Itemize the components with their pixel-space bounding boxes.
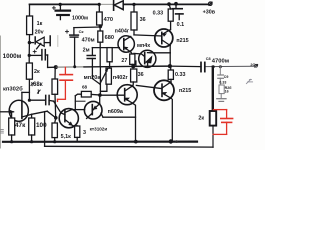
node xyxy=(54,116,58,120)
diode VD2 on rail xyxy=(113,1,115,10)
svg-text:16: 16 xyxy=(225,90,229,94)
small tick marks xyxy=(31,83,34,86)
svg-text:680: 680 xyxy=(105,35,114,41)
resistor R 2k xyxy=(26,63,32,79)
transistor VT p215 top xyxy=(155,29,173,47)
resistor R (1k) mid xyxy=(107,48,112,62)
svg-text:п404г: п404г xyxy=(115,28,130,34)
capacitor C 470u xyxy=(74,26,100,29)
left spine wire xyxy=(29,4,31,16)
value labels xyxy=(3,10,259,140)
input gate wire xyxy=(0,111,14,113)
svg-text:+30в: +30в xyxy=(203,10,216,16)
capacitor C8 4700u xyxy=(200,62,202,71)
svg-text:3: 3 xyxy=(83,130,86,136)
svg-text:47к: 47к xyxy=(15,122,26,129)
capacitor C (to base kt3102) xyxy=(29,99,45,101)
svg-text:Ск: Ск xyxy=(79,29,84,34)
ground arrow (faint, right) xyxy=(246,79,252,83)
svg-text:470: 470 xyxy=(104,17,113,23)
svg-text:0.1: 0.1 xyxy=(177,22,185,28)
resistor R 68 (horizontal) xyxy=(75,94,81,96)
svg-text:2к: 2к xyxy=(34,69,40,75)
svg-text:20v: 20v xyxy=(35,30,44,36)
wire p609a emitter row xyxy=(103,116,136,118)
red zobel on load xyxy=(213,110,232,135)
svg-text:С9: С9 xyxy=(224,75,229,79)
svg-text:С8: С8 xyxy=(206,57,211,61)
resistor R 3 xyxy=(75,126,80,137)
capacitor C 1000u (top filter) xyxy=(59,4,61,10)
node xyxy=(98,93,102,97)
svg-text:5,1к: 5,1к xyxy=(61,134,71,140)
wire (rail after diode) xyxy=(124,3,209,5)
resistor R 1k xyxy=(27,16,33,35)
node: rail junction dots xyxy=(59,3,62,6)
svg-text:кп302б: кп302б xyxy=(3,85,23,92)
svg-text:2м: 2м xyxy=(83,47,90,53)
zener diode VD1 xyxy=(29,42,33,44)
svg-text:2к: 2к xyxy=(198,116,204,122)
svg-text:36: 36 xyxy=(140,17,146,23)
svg-text:1к: 1к xyxy=(37,21,43,27)
input lower marks xyxy=(1,129,4,133)
resistor R 680 xyxy=(98,31,103,42)
capacitor C 2m xyxy=(91,48,93,56)
transistor VT p402g xyxy=(117,85,137,105)
node xyxy=(28,54,31,57)
resistor R 5.1k xyxy=(55,118,56,123)
bottom rail xyxy=(3,141,197,143)
JFET kp302b xyxy=(9,100,28,121)
speaker feed thick wire xyxy=(212,67,214,110)
base wire to VT p215 top xyxy=(134,35,162,36)
zobel C9 R2b (gray) xyxy=(217,67,226,102)
svg-text:4700м: 4700м xyxy=(212,58,229,64)
svg-text:68: 68 xyxy=(82,85,88,90)
resistor R 36 (top) xyxy=(133,4,135,12)
resistor R 47k xyxy=(11,112,13,118)
trimmer xyxy=(106,68,111,84)
capacitor C 0.1 xyxy=(175,4,177,9)
svg-text:1000м: 1000м xyxy=(72,15,88,21)
svg-text:п609а: п609а xyxy=(108,109,124,115)
svg-text:470м: 470м xyxy=(82,37,95,43)
resistor R 68k xyxy=(54,67,56,79)
svg-text:27: 27 xyxy=(121,58,127,64)
transistor VT p215 bottom xyxy=(154,80,174,100)
svg-text:68к: 68к xyxy=(33,82,43,88)
svg-text:1000м: 1000м xyxy=(3,53,22,60)
resistor R 27 xyxy=(130,54,135,64)
transistor VT p404g xyxy=(118,36,134,52)
transistor VT mp4x xyxy=(139,50,156,67)
node xyxy=(28,99,31,102)
resistor R 2k (load) xyxy=(210,111,217,126)
transistor VT kt3102 xyxy=(59,109,78,128)
svg-text:п215: п215 xyxy=(176,38,188,44)
svg-text:кт3102и: кт3102и xyxy=(90,127,108,132)
transistor VT p609a xyxy=(84,101,102,119)
red feedback cap (left) xyxy=(58,67,73,101)
svg-text:36: 36 xyxy=(138,72,144,78)
svg-text:п402г: п402г xyxy=(113,75,129,81)
svg-text:0.33: 0.33 xyxy=(153,10,164,16)
output terminal xyxy=(255,64,258,67)
resistor R 0.33 (mid) xyxy=(170,66,172,70)
output/feedback bus xyxy=(48,66,56,68)
node xyxy=(28,41,31,44)
resistor R 36 (mid) xyxy=(131,69,137,82)
wire (thin rail segment before diode) xyxy=(99,3,113,5)
+30v terminal xyxy=(209,2,212,5)
svg-text:2Ом: 2Ом xyxy=(250,63,258,67)
svg-text:100: 100 xyxy=(36,122,47,129)
resistor R 0.33 (top) xyxy=(168,9,173,21)
svg-text:мп4х: мп4х xyxy=(137,43,150,49)
svg-text:0,33: 0,33 xyxy=(219,80,226,84)
resistor R 100 xyxy=(31,114,33,118)
vertical x=100 down from 680 xyxy=(99,48,101,67)
resistor R 470 xyxy=(98,4,100,12)
capacitor C 1000u (coupling, left) xyxy=(29,54,41,56)
top supply rail xyxy=(30,3,100,5)
svg-text:0.33: 0.33 xyxy=(175,72,186,78)
svg-text:мп20а: мп20а xyxy=(84,75,102,81)
base bus y=47.5 xyxy=(92,47,119,49)
svg-text:п215: п215 xyxy=(179,88,191,94)
scan edge artifact left xyxy=(0,36,2,148)
labels zobel (gray) xyxy=(219,63,258,94)
node xyxy=(99,25,103,29)
